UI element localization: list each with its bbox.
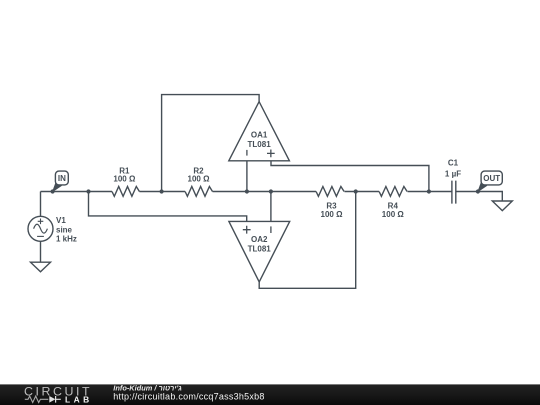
- op-amp OA1: [229, 102, 290, 161]
- svg-text:1 µF: 1 µF: [445, 170, 461, 179]
- wire C1 to OUT and ground: [456, 192, 503, 202]
- wire V1 top stub: [40, 192, 42, 217]
- OA1 plus marker: [267, 150, 275, 158]
- node junction dot OUT: [476, 189, 480, 193]
- logo resistor squiggle: [25, 396, 49, 402]
- svg-text:1 kHz: 1 kHz: [56, 235, 77, 244]
- capacitor C1: [452, 181, 456, 204]
- OA2 minus marker: [270, 226, 272, 233]
- OA1 minus marker: [246, 150, 248, 156]
- svg-text:100 Ω: 100 Ω: [113, 175, 136, 184]
- wire OA1 inverting input to node: [246, 161, 248, 192]
- svg-text:sine: sine: [56, 225, 73, 234]
- flag OUT tail: [477, 183, 487, 193]
- wire R4 to C1: [408, 191, 452, 193]
- wire main horizontal segment V1 to R1: [41, 191, 113, 193]
- node junction dot OA1 feedback: [160, 189, 164, 193]
- ground under V1: [31, 262, 51, 272]
- resistor R2: [185, 187, 212, 197]
- svg-text:C1: C1: [448, 158, 459, 167]
- wire R1 to R2: [139, 191, 185, 193]
- svg-text:OA2: OA2: [251, 235, 268, 244]
- flag OUT: [481, 171, 502, 185]
- svg-text:LAB: LAB: [65, 394, 93, 404]
- wire V1 bottom stub: [40, 241, 42, 262]
- V1 plus sign: [38, 219, 44, 225]
- wire OA2 inverting input to main node: [270, 192, 272, 222]
- node junction dot OA2 inverting: [269, 189, 273, 193]
- svg-text:100 Ω: 100 Ω: [321, 210, 344, 219]
- svg-text:OUT: OUT: [483, 174, 500, 183]
- ground right: [492, 201, 512, 211]
- wire OA1 non-inverting input to R4-C1 node: [271, 161, 429, 192]
- node junction dot OA1 non-inverting: [427, 189, 431, 193]
- V1 minus sign: [37, 235, 44, 237]
- V1 sine symbol: [34, 224, 48, 233]
- wire R3 to R4: [345, 191, 380, 193]
- logo diode symbol: [49, 396, 55, 403]
- svg-text:TL081: TL081: [248, 244, 272, 253]
- wire R2 to R3: [213, 191, 317, 193]
- svg-text:TL081: TL081: [248, 140, 272, 149]
- op-amp OA2: [229, 221, 290, 282]
- resistor R3: [316, 187, 344, 197]
- flag IN: [55, 171, 68, 185]
- svg-text:IN: IN: [58, 174, 66, 183]
- svg-text:V1: V1: [56, 216, 66, 225]
- node junction dot IN: [51, 189, 55, 193]
- resistor R4: [379, 187, 407, 197]
- voltage source V1: [28, 216, 53, 241]
- svg-text:100 Ω: 100 Ω: [382, 210, 405, 219]
- OA2 plus marker: [243, 226, 251, 234]
- node junction dot OA2 plus branch: [86, 189, 90, 193]
- svg-text:OA1: OA1: [251, 131, 268, 140]
- wire branch to OA2 plus input: [89, 192, 247, 222]
- node junction dot OA1 inverting: [245, 189, 249, 193]
- svg-text:100 Ω: 100 Ω: [188, 175, 211, 184]
- resistor R1: [112, 187, 139, 197]
- wire OA1 feedback from output: [162, 95, 260, 192]
- flag IN tail: [52, 183, 62, 193]
- node junction dot OA2 output: [354, 189, 358, 193]
- wire OA2 output to R3-R4 node: [259, 192, 356, 289]
- svg-text:http://circuitlab.com/ccq7ass3: http://circuitlab.com/ccq7ass3h5xb8: [113, 392, 264, 402]
